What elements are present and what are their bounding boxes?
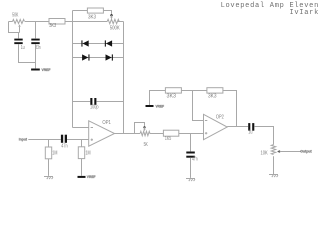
wire R7 feedback to output [223, 91, 237, 127]
svg-text:IvIark: IvIark [289, 9, 319, 17]
resistor R4 1M [78, 147, 84, 159]
svg-text:VREF: VREF [42, 67, 51, 72]
resistor R5 1K5 [163, 130, 178, 136]
capacitor C4 47n [61, 135, 67, 143]
diode D3 [82, 54, 89, 60]
svg-text:33n: 33n [35, 45, 40, 51]
ground G2 [186, 179, 195, 182]
svg-text:1u: 1u [21, 45, 25, 51]
ground G3 [269, 175, 278, 178]
wire to OP1 inverting input [73, 127, 89, 129]
wire diode row 2 [73, 57, 124, 59]
wire R3 to ground [48, 159, 50, 176]
wire R5 to OP2 plus [179, 133, 204, 135]
wire junction to R4 [81, 140, 83, 147]
potentiometer P1 50K [9, 19, 25, 32]
node feedback left vertical [72, 11, 74, 128]
wire R6 to R7 [181, 90, 207, 92]
svg-text:3K3: 3K3 [49, 23, 56, 29]
svg-text:1M: 1M [52, 151, 57, 157]
capacitor C6 1u [248, 123, 254, 131]
wire junction to OP2 minus [193, 91, 204, 121]
capacitor C2 33n [31, 39, 39, 45]
VREF bar 1 [31, 69, 40, 71]
svg-text:3K3: 3K3 [208, 93, 217, 99]
wire C6 to P4 [254, 127, 273, 145]
op-amp U1 OP1 [89, 121, 115, 146]
svg-text:500K: 500K [110, 26, 120, 32]
wire C2 to VREF [35, 44, 37, 68]
node feedback right vertical [123, 22, 125, 134]
wire P3 to R5 [150, 133, 164, 135]
VREF bar 2 [78, 176, 86, 178]
wire VREF to R6 [150, 91, 166, 106]
title text [221, 2, 319, 17]
wire junction to C5 [190, 134, 192, 152]
wire 100p row [73, 101, 124, 103]
diode D1 [81, 40, 88, 46]
wire P4 to ground [273, 156, 275, 174]
capacitor C5 47n [186, 152, 195, 158]
svg-text:1u: 1u [248, 130, 252, 136]
svg-text:VREF: VREF [156, 104, 165, 109]
VREF bar 3 [146, 105, 154, 107]
svg-text:47n: 47n [61, 143, 67, 149]
wire OP2 output [227, 126, 248, 128]
svg-text:VREF: VREF [87, 174, 96, 179]
resistor R2 3K3 [87, 8, 103, 13]
wire C1 to vref node [19, 44, 36, 62]
svg-text:OP2: OP2 [216, 114, 224, 120]
svg-text:50K: 50K [12, 12, 19, 18]
ground G1 [44, 177, 53, 180]
wire R1 to 500K pot [65, 21, 107, 23]
svg-text:Output: Output [300, 148, 312, 153]
potentiometer P3 5K [135, 123, 150, 136]
svg-text:OP1: OP1 [102, 120, 111, 126]
resistor R3 1M [45, 147, 51, 159]
svg-text:3K3: 3K3 [167, 93, 177, 99]
resistor R7 3K3 [207, 88, 223, 93]
op-amp U2 OP2 [204, 114, 228, 139]
svg-text:1M: 1M [86, 151, 91, 157]
capacitor C1 1u [14, 39, 22, 45]
svg-text:10K: 10K [261, 150, 269, 156]
wire C5 to ground [190, 158, 192, 178]
wire R4 to VREF [81, 159, 83, 176]
svg-text:100p: 100p [90, 105, 99, 111]
wire R2 to wiper of P2 [103, 11, 111, 15]
potentiometer P2 500K [107, 14, 123, 24]
capacitor C3 100p [90, 98, 96, 105]
wire diode row 1 [73, 43, 124, 45]
diode D4 [106, 54, 113, 60]
svg-text:Input: Input [19, 137, 28, 142]
svg-text:5K: 5K [144, 142, 149, 148]
wire top to R2 [73, 10, 88, 12]
svg-text:1K5: 1K5 [165, 136, 171, 142]
wire junction to R3 [48, 140, 50, 148]
diode D2 [105, 40, 112, 46]
svg-text:47n: 47n [192, 157, 198, 163]
wire 33n tap [35, 22, 37, 39]
svg-text:3K3: 3K3 [88, 14, 96, 20]
wire OP1 output [115, 133, 141, 135]
wire input [28, 139, 61, 141]
resistor R6 3K3 [165, 88, 181, 93]
wire main top [25, 21, 49, 23]
resistor R1 3K3 [49, 19, 65, 25]
potentiometer P4 10K [271, 145, 301, 155]
wire pot wiper to cap C1 [18, 33, 20, 39]
wire C4 to OP1 plus [67, 139, 89, 141]
